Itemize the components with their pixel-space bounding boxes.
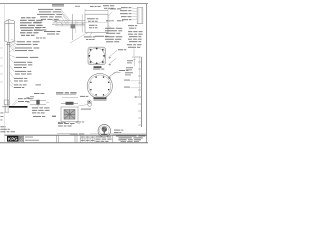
dim line above rect (85, 10, 108, 12)
arm lines (53, 20, 85, 22)
detail title (52, 4, 64, 5)
logo hatch box (19, 136, 24, 142)
field grid (83, 135, 93, 143)
flange corner shade (89, 48, 105, 64)
text above circle (93, 68, 100, 71)
sheet border top (0, 3, 148, 5)
grade bar (9, 106, 28, 108)
section cut (72, 14, 74, 40)
right text block (128, 30, 132, 33)
left dim (81, 14, 83, 32)
bolt circle outer (87, 73, 112, 98)
detail O dim (62, 97, 78, 99)
stray small text (36, 83, 42, 86)
detail O drawing (61, 107, 78, 122)
revision strip line (57, 133, 70, 135)
leaders from box (8, 39, 17, 52)
sheet border right (146, 4, 148, 143)
flange label (94, 66, 102, 68)
title fields small text (25, 136, 33, 139)
title block dividers (23, 135, 112, 143)
foundation outline (4, 100, 9, 105)
square flange plate (88, 47, 105, 64)
detail O labels below (58, 122, 63, 125)
narrow mast rect (137, 8, 143, 24)
arm lattice verticals (57, 21, 82, 26)
leaders right of rect (108, 12, 112, 29)
small arrows on arm (54, 20, 85, 24)
KPG logo (7, 136, 19, 142)
pedestal box detail (5, 20, 15, 43)
ground labels (18, 97, 23, 100)
pole leaders (9, 43, 15, 87)
pole left edge (6, 42, 8, 106)
ladder small labels (127, 59, 133, 62)
svg-text:KPG: KPG (8, 137, 18, 142)
bottom-left notes (0, 119, 2, 122)
ladder cap (132, 56, 141, 58)
ladder top label (127, 43, 132, 46)
sheet border left (4, 4, 6, 143)
step dot (136, 96, 142, 98)
arm leaders (59, 10, 71, 26)
pole right edge (8, 42, 10, 106)
connection plate (71, 25, 75, 29)
mast labels (121, 6, 128, 9)
left ticks (0, 48, 2, 82)
leader from circle (108, 72, 120, 78)
note text block (21, 17, 25, 18)
balloon right (88, 102, 92, 106)
circle title (94, 97, 107, 99)
arm labels (38, 8, 53, 11)
title block top line (5, 134, 147, 136)
flange bolts (89, 48, 105, 64)
below rect (84, 36, 92, 37)
stamp side text (114, 129, 120, 132)
detail O title (56, 92, 63, 93)
main rect detail (85, 14, 108, 32)
detail N labels (32, 106, 38, 109)
diagonal arrows left (108, 51, 118, 78)
sheet border bottom (0, 142, 148, 144)
header row above fields (70, 133, 78, 136)
engineer stamp (98, 124, 111, 137)
detail N drawing (30, 99, 46, 101)
detail N title (34, 92, 40, 95)
ladder rail (140, 57, 142, 127)
grade line left (2, 106, 9, 108)
title block right text (113, 134, 147, 136)
balloon B (87, 100, 91, 104)
pole cap (6, 44, 10, 46)
pole labels (16, 56, 28, 59)
labels right of rect (110, 7, 116, 10)
